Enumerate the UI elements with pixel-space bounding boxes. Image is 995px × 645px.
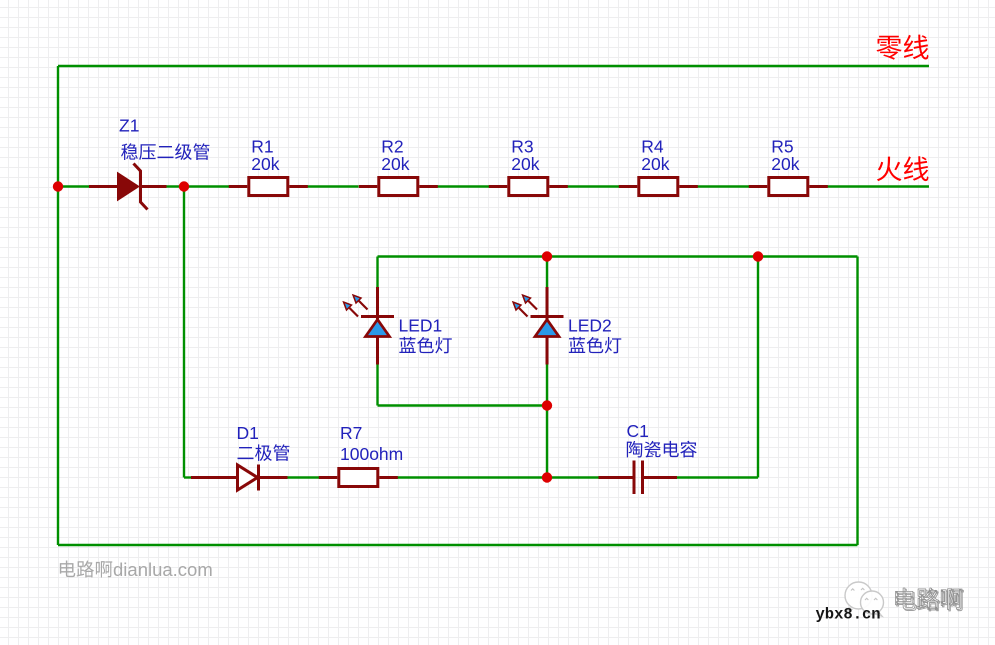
svg-text:100ohm: 100ohm [340,444,403,464]
svg-text:20k: 20k [771,154,799,174]
svg-text:C1: C1 [627,421,649,441]
svg-text:Z1: Z1 [119,116,139,136]
svg-text:20k: 20k [251,154,279,174]
svg-text:LED1: LED1 [399,316,443,336]
svg-text:20k: 20k [511,154,539,174]
svg-text:dianlua.com: dianlua.com [113,559,213,580]
svg-text:20k: 20k [381,154,409,174]
svg-text:ybx8.cn: ybx8.cn [816,606,881,624]
svg-text:R7: R7 [340,423,362,443]
svg-text:D1: D1 [237,423,259,443]
svg-text:LED2: LED2 [568,316,612,336]
svg-text:20k: 20k [641,154,669,174]
